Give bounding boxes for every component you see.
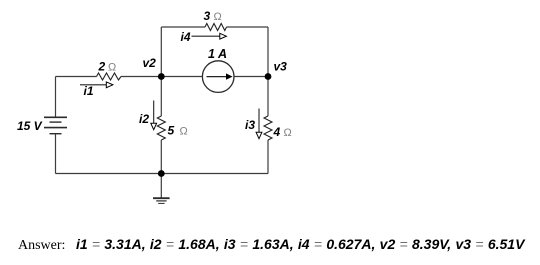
label 3 ohm — [204, 9, 222, 23]
ground — [153, 198, 170, 203]
answer text — [18, 237, 524, 253]
svg-text:v3: v3 — [274, 59, 288, 73]
label 2 ohm — [98, 59, 117, 73]
wire 4-ohm to bottom rail — [267, 140, 269, 174]
wire top branch left of 3-ohm — [161, 26, 205, 28]
wire ground stub — [160, 174, 162, 199]
node v2 — [158, 73, 165, 80]
resistor 4 ohm — [264, 116, 272, 140]
voltage source V1 15V battery — [44, 117, 67, 133]
svg-text:15 V: 15 V — [17, 119, 43, 133]
svg-text:i2: i2 — [139, 112, 149, 126]
wire v2 up to top branch — [160, 27, 162, 77]
node v3 — [265, 73, 272, 80]
wire top branch right of 3-ohm — [227, 26, 269, 28]
wire v2 to current source — [161, 76, 202, 78]
wire 5-ohm to bottom node — [160, 140, 162, 174]
resistor 5 ohm — [157, 116, 165, 140]
resistor 2 ohm — [97, 73, 122, 80]
wire left rail bottom segment — [55, 134, 57, 174]
svg-text:v2: v2 — [143, 56, 157, 70]
current arrow i3 — [256, 109, 262, 139]
current source I1 1A — [202, 61, 234, 93]
label 4 ohm — [273, 125, 292, 139]
current arrow i4 — [192, 33, 227, 39]
wire left rail top segment — [55, 77, 57, 118]
wire 2-ohm to node v2 — [121, 76, 161, 78]
svg-text:Ω: Ω — [214, 11, 222, 23]
wire v2 down to 5-ohm — [160, 77, 162, 117]
svg-text:2: 2 — [98, 59, 106, 73]
svg-text:Ω: Ω — [180, 126, 188, 138]
current arrow i1 — [80, 82, 113, 88]
svg-text:5: 5 — [168, 124, 175, 138]
wire current source to v3 — [235, 76, 269, 78]
svg-text:Ω: Ω — [108, 61, 116, 73]
wire bottom rail — [56, 173, 269, 175]
wire top-left horizontal to 2-ohm — [56, 76, 97, 78]
wire v3 down to 4-ohm — [267, 77, 269, 117]
resistor 3 ohm — [205, 24, 227, 31]
svg-text:i3: i3 — [245, 118, 255, 132]
svg-text:3: 3 — [204, 9, 211, 23]
current arrow i2 — [151, 101, 157, 130]
svg-text:1 A: 1 A — [208, 47, 227, 61]
node ground junction — [158, 170, 165, 177]
svg-text:i1: i1 — [84, 84, 94, 98]
wire top branch down to v3 — [267, 27, 269, 77]
svg-text:4: 4 — [273, 125, 281, 139]
svg-text:i4: i4 — [181, 30, 191, 44]
svg-text:Ω: Ω — [284, 127, 292, 139]
label 5 ohm — [168, 124, 188, 138]
